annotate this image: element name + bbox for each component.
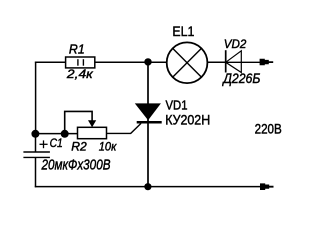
svg-text:EL1: EL1 <box>172 23 194 39</box>
potentiometer R2 <box>78 120 107 138</box>
wire capacitor top lead <box>35 133 37 152</box>
lamp EL1 <box>167 42 208 83</box>
junction node at VD1 and bottom rail <box>144 183 151 190</box>
svg-text:C1: C1 <box>50 136 63 150</box>
wire R1 to lamp EL1 <box>95 61 169 63</box>
junction node at R2 wiper loop <box>61 130 69 138</box>
svg-text:20мкФх300В: 20мкФх300В <box>41 156 111 173</box>
resistor R1 <box>66 57 95 68</box>
wire VD2 to output arrow <box>226 61 266 63</box>
capacitor C1 <box>23 152 50 157</box>
wire VD1 anode and cathode vertical <box>147 62 149 186</box>
terminal arrow bottom output <box>260 183 274 190</box>
wire R2 to VD1 gate <box>106 123 141 133</box>
wire lamp to VD2 <box>206 61 226 63</box>
wire bottom rail <box>35 186 266 188</box>
svg-text:10к: 10к <box>99 141 117 153</box>
svg-text:VD2: VD2 <box>224 37 247 51</box>
polarity plus sign of C1 <box>40 140 48 148</box>
svg-text:R1: R1 <box>69 42 85 56</box>
svg-text:КУ202Н: КУ202Н <box>165 112 210 128</box>
diode VD2 <box>226 50 242 72</box>
wire left rail vertical <box>35 62 37 134</box>
wire capacitor bottom lead <box>35 157 37 187</box>
svg-text:220В: 220В <box>255 122 282 137</box>
terminal arrow top output <box>260 59 274 66</box>
svg-text:Д226Б: Д226Б <box>221 71 260 86</box>
junction node at C1 and left rail <box>31 130 39 138</box>
wire R2 wiper loop <box>65 111 92 133</box>
wire top left from rail to R1 <box>35 61 66 63</box>
wire middle rail to R2 <box>36 133 78 135</box>
svg-text:2,4к: 2,4к <box>66 67 94 81</box>
thyristor VD1 <box>135 103 162 122</box>
junction node at R1 EL1 VD1 <box>144 58 151 65</box>
svg-text:R2: R2 <box>71 140 87 154</box>
svg-text:VD1: VD1 <box>166 97 188 112</box>
